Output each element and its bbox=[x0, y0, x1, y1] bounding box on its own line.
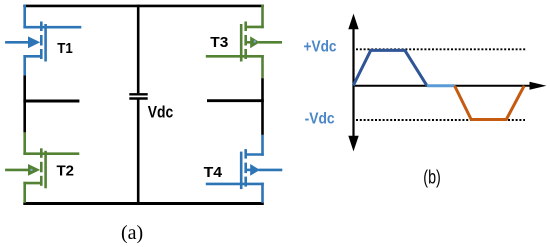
T1 channel segment (body) bbox=[40, 35, 43, 46]
node A stub (left mid output) bbox=[23, 100, 79, 103]
svg-text:-Vdc: -Vdc bbox=[305, 110, 335, 127]
T3 gate bar bbox=[240, 24, 243, 62]
T4 body stub bbox=[247, 169, 252, 172]
wire center branch lower bbox=[137, 100, 140, 205]
node B stub (right mid output) bbox=[207, 99, 264, 102]
waveform positive half-cycle (blue trapezoid) bbox=[353, 50, 427, 85]
waveform axes: horizontal axis (time) bbox=[353, 85, 531, 87]
T1 channel segment (source) bbox=[40, 49, 43, 59]
svg-text:(a): (a) bbox=[121, 222, 143, 244]
waveform axes: vertical axis bbox=[352, 28, 354, 137]
T1 body arrow bbox=[28, 36, 40, 48]
wire left branch T2 source to bottom rail bbox=[23, 182, 26, 203]
T1 gate bar bbox=[44, 24, 47, 62]
top rail bbox=[23, 5, 263, 8]
svg-text:+Vdc: +Vdc bbox=[304, 38, 337, 55]
wire right branch T4 source to bottom rail bbox=[261, 183, 264, 203]
T3 body arrow bbox=[250, 36, 260, 48]
T4 drain lead bbox=[247, 153, 264, 156]
horizontal axis right arrowhead bbox=[530, 82, 547, 90]
svg-text:Vdc: Vdc bbox=[148, 103, 174, 121]
T4 gate lead + source lead bbox=[206, 183, 264, 186]
T2 channel segment (body) bbox=[40, 162, 43, 173]
T4 channel segment (drain) bbox=[244, 149, 247, 159]
waveform negative half-cycle (orange trapezoid) bbox=[455, 86, 525, 120]
T3 drain lead bbox=[247, 26, 264, 29]
wire center branch upper bbox=[137, 5, 140, 94]
T2 gate bar bbox=[44, 151, 47, 189]
T2 drain lead + gate lead bbox=[23, 152, 79, 155]
T2 source lead bbox=[23, 182, 40, 185]
T3 gate lead + source lead bbox=[206, 55, 264, 58]
T3 channel segment (body) bbox=[244, 35, 247, 46]
T3 body stub bbox=[247, 41, 252, 44]
T2 channel segment (source) bbox=[40, 176, 43, 186]
T2 body lead bbox=[5, 169, 29, 172]
T4 body arrow bbox=[250, 164, 260, 176]
T4 channel segment (source) bbox=[244, 177, 247, 187]
wire left branch T1 drain from top rail bbox=[23, 5, 26, 29]
T4 body lead bbox=[259, 169, 283, 172]
svg-text:T3: T3 bbox=[210, 35, 228, 51]
svg-text:(b): (b) bbox=[423, 168, 441, 189]
node dot artifact in T2 arrow bbox=[30, 169, 32, 171]
bottom rail bbox=[23, 202, 263, 205]
T3 body lead bbox=[259, 41, 283, 44]
T2 body arrow bbox=[28, 164, 40, 176]
T4 channel segment (body) bbox=[244, 163, 247, 174]
vertical axis down arrowhead bbox=[348, 136, 358, 152]
wire left branch middle (black part) bbox=[23, 75, 26, 132]
vertical axis up arrowhead bbox=[348, 14, 358, 30]
wire left branch T2 drain (green part) bbox=[23, 132, 26, 155]
T3 channel segment (drain) bbox=[244, 22, 247, 32]
svg-text:T1: T1 bbox=[57, 41, 73, 57]
dotted level line +Vdc bbox=[356, 48, 526, 50]
waveform zero segment (light blue) bbox=[427, 84, 455, 87]
dotted level line -Vdc bbox=[356, 119, 525, 121]
transistor T2 (green NMOS, bottom-left) bbox=[5, 148, 79, 188]
T3 channel segment (source) bbox=[244, 49, 247, 59]
wire right branch T3 source down (green part) bbox=[261, 55, 264, 78]
transistor T1 (blue NMOS, top-left) bbox=[5, 22, 81, 62]
transistor T3 (green NMOS, top-right) bbox=[206, 22, 282, 62]
svg-text:T4: T4 bbox=[204, 165, 223, 181]
wire right branch T4 drain (blue part) bbox=[261, 135, 264, 156]
wire right branch T3 drain from top rail bbox=[261, 5, 264, 29]
T1 source lead bbox=[23, 55, 40, 58]
T2 channel segment (drain) bbox=[40, 148, 43, 158]
node dot artifact in T3 arrow bbox=[254, 40, 256, 42]
capacitor C Vdc plates bbox=[129, 94, 147, 98]
T1 body lead bbox=[5, 41, 29, 44]
T1 channel segment (drain) bbox=[40, 22, 43, 32]
T1 drain lead + gate lead bbox=[23, 26, 81, 29]
wire left branch T1 source down (blue part) bbox=[23, 55, 26, 75]
T4 gate bar bbox=[240, 152, 243, 190]
wire right branch middle (black part) bbox=[261, 78, 264, 135]
transistor T4 (blue NMOS, bottom-right) bbox=[206, 149, 282, 189]
svg-text:T2: T2 bbox=[57, 163, 75, 179]
